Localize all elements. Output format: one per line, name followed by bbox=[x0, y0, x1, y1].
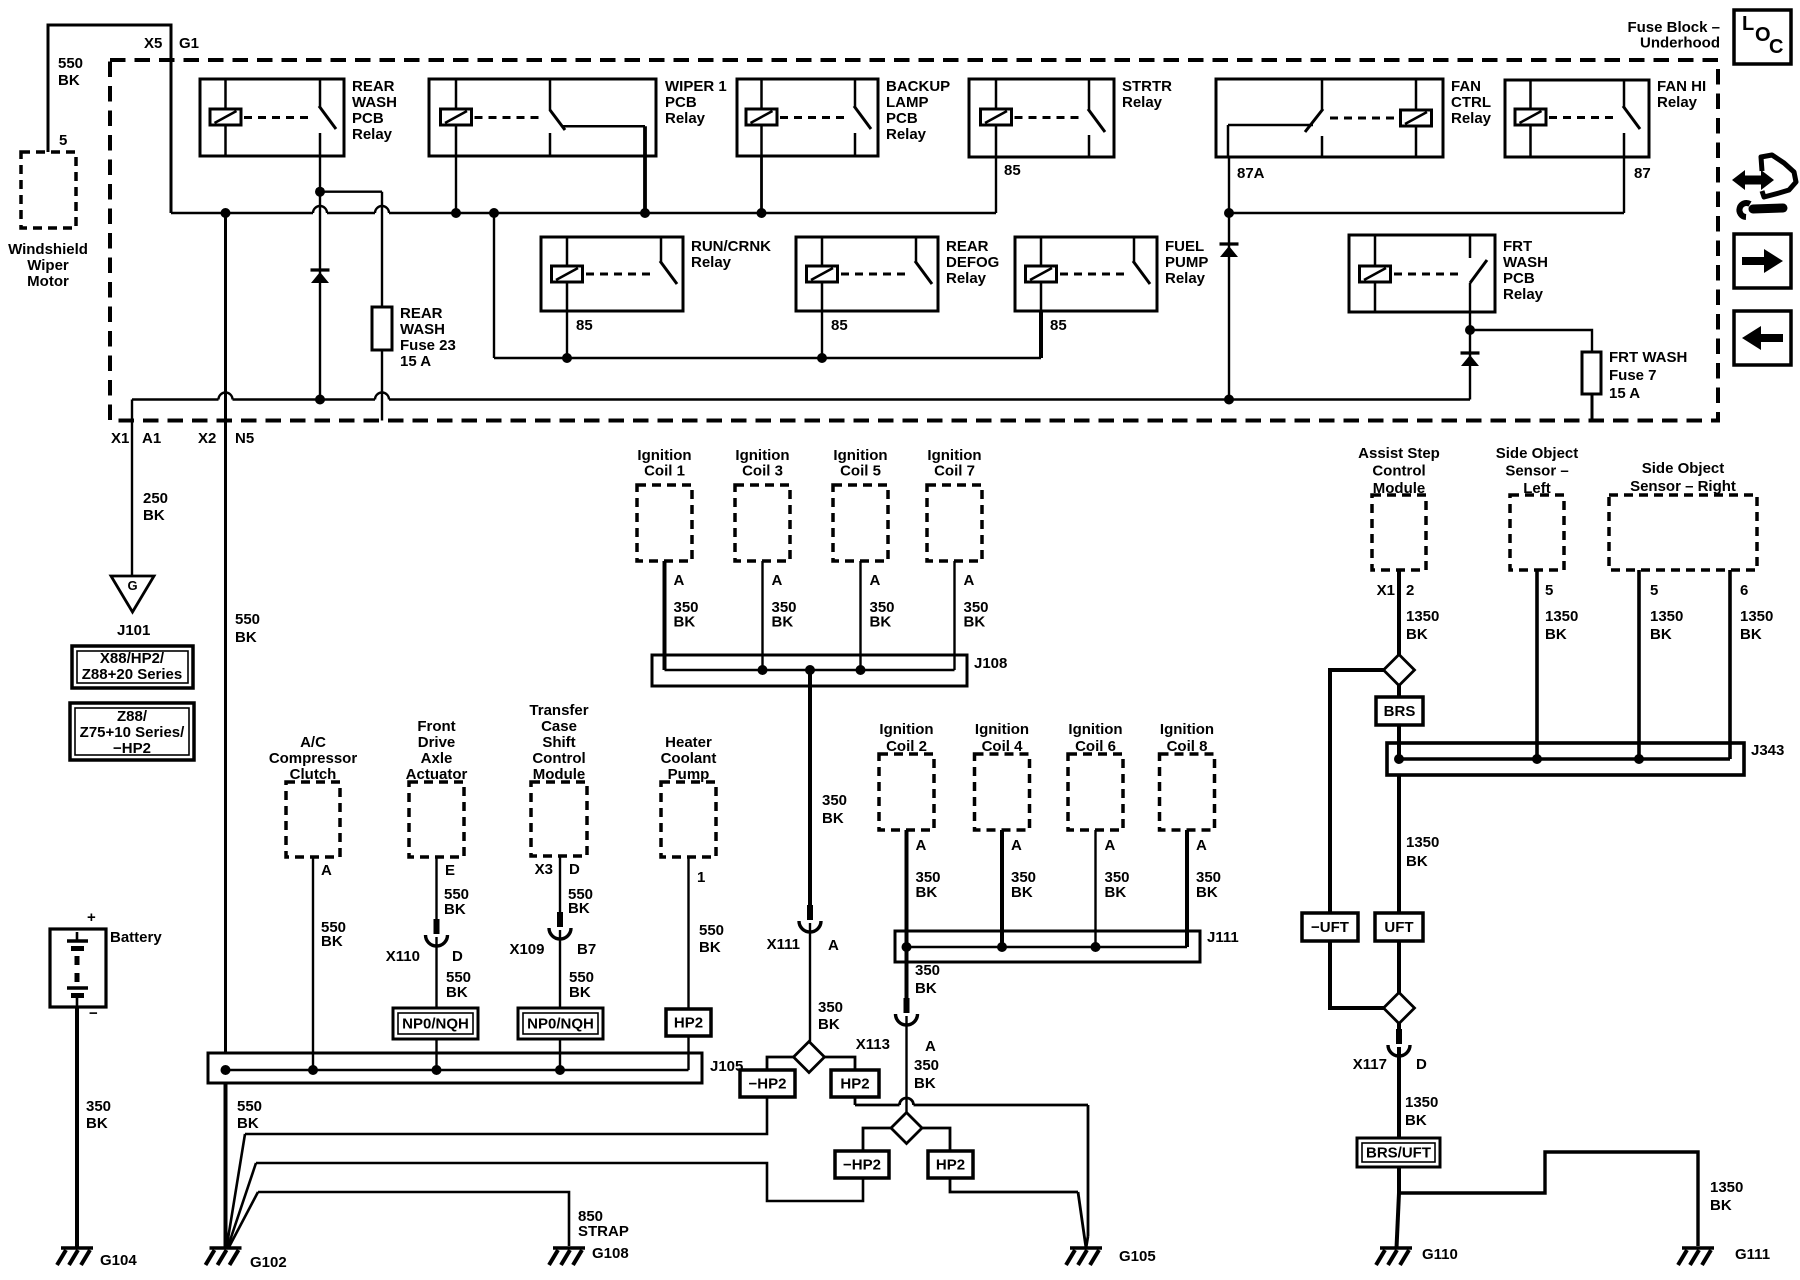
svg-text:Fuse Block –: Fuse Block – bbox=[1627, 19, 1720, 36]
svg-text:BK: BK bbox=[818, 1016, 840, 1033]
svg-text:Ignition: Ignition bbox=[1068, 721, 1122, 738]
box NP0/NQH (X109) bbox=[518, 1008, 603, 1039]
svg-text:Ignition: Ignition bbox=[879, 721, 933, 738]
svg-text:BK: BK bbox=[1196, 884, 1218, 901]
svg-text:Drive: Drive bbox=[418, 734, 456, 751]
wire -UFT to diamond2 bbox=[1330, 941, 1385, 1008]
svg-text:Pump: Pump bbox=[668, 766, 710, 783]
svg-text:A: A bbox=[925, 1038, 936, 1055]
svg-text:Coil 6: Coil 6 bbox=[1075, 738, 1116, 755]
svg-text:X3: X3 bbox=[535, 861, 553, 878]
svg-text:Relay: Relay bbox=[1122, 94, 1163, 111]
wire SOS-R pin 6 bbox=[1728, 570, 1732, 759]
svg-text:RUN/CRNK: RUN/CRNK bbox=[691, 238, 771, 255]
svg-text:Module: Module bbox=[533, 766, 586, 783]
svg-text:Windshield: Windshield bbox=[8, 241, 88, 258]
svg-text:Coil 5: Coil 5 bbox=[840, 463, 881, 480]
relay REAR WASH PCB - coil bbox=[224, 79, 227, 109]
svg-text:BK: BK bbox=[86, 1115, 108, 1132]
svg-text:Relay: Relay bbox=[691, 254, 732, 271]
svg-text:BK: BK bbox=[143, 507, 165, 524]
relay REAR DEFOG - box bbox=[796, 237, 938, 311]
ground G110 bbox=[1380, 1246, 1412, 1250]
svg-text:1350: 1350 bbox=[1405, 1094, 1438, 1111]
svg-text:350: 350 bbox=[822, 792, 847, 809]
fuse FRT WASH Fuse 7 15A bbox=[1582, 352, 1601, 394]
wire BRS to J343 bbox=[1397, 725, 1401, 760]
wire FRT WASH switch pin bbox=[1469, 283, 1471, 330]
ignition coil 4 (bank2) bbox=[975, 754, 1030, 830]
svg-text:Relay: Relay bbox=[665, 110, 706, 127]
svg-text:E: E bbox=[445, 862, 455, 879]
svg-text:85: 85 bbox=[1050, 317, 1067, 334]
splice diamond X113 bbox=[891, 1113, 922, 1144]
relay STRTR - switch bbox=[1088, 79, 1091, 110]
svg-text:J343: J343 bbox=[1751, 742, 1784, 759]
relay FRT WASH PCB - coil bbox=[1374, 235, 1377, 266]
svg-text:BK: BK bbox=[964, 614, 986, 631]
svg-text:BRS/UFT: BRS/UFT bbox=[1366, 1145, 1431, 1162]
svg-text:X109: X109 bbox=[509, 941, 544, 958]
box -UFT bbox=[1302, 913, 1358, 941]
box -HP2 (first) bbox=[740, 1070, 795, 1097]
splice diamond ASCM bbox=[1384, 655, 1415, 686]
splice pack J105 bbox=[208, 1053, 702, 1083]
svg-text:+: + bbox=[87, 909, 96, 926]
wire FAN HI 87 pin bbox=[1623, 157, 1625, 213]
svg-text:DEFOG: DEFOG bbox=[946, 254, 999, 271]
svg-text:Fuse 23: Fuse 23 bbox=[400, 337, 456, 354]
svg-text:G: G bbox=[127, 578, 137, 593]
svg-text:15 A: 15 A bbox=[400, 353, 431, 370]
svg-text:Relay: Relay bbox=[946, 270, 987, 287]
wire A/C pin bbox=[312, 857, 314, 1070]
relay STRTR - box bbox=[969, 79, 1114, 157]
svg-text:Assist Step: Assist Step bbox=[1358, 445, 1440, 462]
box arrow left bbox=[1734, 311, 1791, 365]
svg-text:A: A bbox=[828, 937, 839, 954]
connector X109 bbox=[557, 912, 563, 927]
fuse REAR WASH Fuse 23 15A bbox=[372, 307, 392, 350]
svg-text:85: 85 bbox=[1004, 162, 1021, 179]
svg-text:WASH: WASH bbox=[1503, 254, 1548, 271]
relay BACKUP LAMP PCB - box bbox=[737, 79, 878, 156]
relay REAR WASH PCB - switch bbox=[319, 79, 322, 107]
svg-text:Relay: Relay bbox=[886, 126, 927, 143]
A/C compressor clutch bbox=[286, 782, 340, 857]
svg-text:Control: Control bbox=[532, 750, 585, 767]
svg-text:5: 5 bbox=[1650, 582, 1658, 599]
relay FAN HI - coil bbox=[1529, 80, 1532, 109]
svg-text:Coil 2: Coil 2 bbox=[886, 738, 927, 755]
svg-text:−: − bbox=[89, 1005, 98, 1022]
svg-text:Coil 7: Coil 7 bbox=[934, 463, 975, 480]
windshield wiper motor bbox=[21, 152, 76, 228]
svg-text:BK: BK bbox=[1105, 884, 1127, 901]
svg-text:BK: BK bbox=[568, 900, 590, 917]
svg-text:REAR: REAR bbox=[400, 305, 443, 322]
svg-text:X113: X113 bbox=[856, 1036, 890, 1053]
wire REAR DEFOG 85 pin bbox=[821, 311, 823, 358]
transfer case shift control module bbox=[531, 782, 587, 856]
box UFT bbox=[1375, 913, 1423, 941]
svg-text:X88/HP2/: X88/HP2/ bbox=[100, 650, 165, 667]
svg-text:Shift: Shift bbox=[542, 734, 575, 751]
svg-text:Actuator: Actuator bbox=[406, 766, 468, 783]
svg-text:BK: BK bbox=[674, 614, 696, 631]
relay STRTR - coil bbox=[995, 79, 998, 109]
wire diamond to X117 bbox=[1397, 1024, 1401, 1030]
svg-text:BK: BK bbox=[916, 884, 938, 901]
ground G108 bbox=[553, 1246, 585, 1250]
icon harness arrows bbox=[1732, 155, 1796, 217]
diode frt wash bbox=[1461, 351, 1480, 354]
ground G102 bbox=[210, 1246, 242, 1250]
relay BACKUP LAMP PCB - coil bbox=[760, 79, 763, 109]
relay FUEL PUMP - switch bbox=[1133, 237, 1136, 262]
wire ignition coil 8 pin A bbox=[1185, 830, 1189, 947]
svg-text:1350: 1350 bbox=[1740, 608, 1773, 625]
svg-text:BK: BK bbox=[58, 72, 80, 89]
svg-text:X5: X5 bbox=[144, 35, 162, 52]
svg-text:Ignition: Ignition bbox=[975, 721, 1029, 738]
side object sensor left bbox=[1510, 495, 1564, 570]
svg-text:NP0/NQH: NP0/NQH bbox=[402, 1016, 469, 1033]
relay RUN/CRNK - switch bbox=[660, 237, 663, 262]
svg-text:BK: BK bbox=[1011, 884, 1033, 901]
svg-text:Ignition: Ignition bbox=[833, 447, 887, 464]
wire ignition coil 4 pin A bbox=[1000, 830, 1004, 947]
svg-text:J108: J108 bbox=[974, 655, 1007, 672]
svg-text:5: 5 bbox=[59, 132, 67, 149]
svg-text:D: D bbox=[569, 861, 580, 878]
wire WIPER1 switch pin to bus bbox=[643, 126, 647, 213]
box HP2 (heater pump) bbox=[666, 1009, 711, 1036]
connector X113 bbox=[904, 998, 910, 1013]
svg-text:A: A bbox=[916, 837, 927, 854]
svg-text:BK: BK bbox=[321, 933, 343, 950]
svg-text:FRT WASH: FRT WASH bbox=[1609, 349, 1687, 366]
svg-text:550: 550 bbox=[58, 55, 83, 72]
svg-text:BK: BK bbox=[822, 810, 844, 827]
svg-text:B7: B7 bbox=[577, 941, 596, 958]
relay RUN/CRNK - box bbox=[541, 237, 683, 311]
box -HP2 (second) bbox=[835, 1151, 889, 1178]
wire branch to G111 (1350 BK) bbox=[1399, 1152, 1698, 1246]
box arrow right bbox=[1734, 234, 1791, 288]
svg-text:−UFT: −UFT bbox=[1311, 919, 1349, 936]
box X88/HP2/Z88+20 Series bbox=[72, 646, 193, 688]
svg-text:350: 350 bbox=[915, 962, 940, 979]
svg-text:J111: J111 bbox=[1207, 929, 1239, 946]
svg-text:1350: 1350 bbox=[1406, 834, 1439, 851]
wire ignition coil 6 pin A bbox=[1094, 830, 1096, 947]
svg-text:HP2: HP2 bbox=[936, 1157, 965, 1174]
svg-text:BRS: BRS bbox=[1384, 703, 1416, 720]
svg-text:−HP2: −HP2 bbox=[843, 1157, 881, 1174]
ignition coil 7 (bank1) bbox=[927, 485, 982, 561]
svg-text:BK: BK bbox=[914, 1075, 936, 1092]
svg-text:STRTR: STRTR bbox=[1122, 78, 1172, 95]
bus 85 (y=358) bbox=[494, 357, 1041, 359]
splice diamond UFT bbox=[1384, 993, 1415, 1024]
relay FUEL PUMP - dashed link bbox=[1060, 273, 1126, 276]
svg-text:Underhood: Underhood bbox=[1640, 35, 1720, 52]
svg-text:Compressor: Compressor bbox=[269, 750, 358, 767]
svg-text:550: 550 bbox=[699, 922, 724, 939]
fuse block - underhood dashed boundary bbox=[110, 60, 1718, 421]
relay WIPER 1 PCB - dashed link bbox=[475, 116, 543, 119]
svg-text:550: 550 bbox=[235, 611, 260, 628]
svg-text:A: A bbox=[1011, 837, 1022, 854]
relay REAR WASH PCB - box bbox=[200, 79, 344, 156]
relay REAR DEFOG - dashed link bbox=[841, 273, 908, 276]
svg-text:350: 350 bbox=[914, 1057, 939, 1074]
box BRS bbox=[1376, 697, 1423, 725]
svg-text:FAN: FAN bbox=[1451, 78, 1481, 95]
relay BACKUP LAMP PCB - switch bbox=[854, 79, 857, 107]
front drive axle actuator bbox=[409, 782, 464, 857]
svg-text:Relay: Relay bbox=[352, 126, 393, 143]
ignition coil 5 (bank1) bbox=[833, 485, 888, 561]
svg-text:1350: 1350 bbox=[1650, 608, 1683, 625]
diode rear wash bbox=[311, 268, 330, 271]
wire diamond to -UFT branch bbox=[1330, 670, 1384, 913]
svg-text:A: A bbox=[772, 572, 783, 589]
svg-text:Z88+20 Series: Z88+20 Series bbox=[82, 666, 183, 683]
wire WIPER1 coil pin to bus bbox=[455, 156, 457, 213]
wire battery to G104 bbox=[75, 1007, 79, 1248]
relay BACKUP LAMP PCB - dashed link bbox=[780, 116, 847, 119]
diode fan ctrl bbox=[1220, 242, 1239, 245]
wire ignition coil 2 pin A bbox=[905, 830, 909, 947]
svg-text:REAR: REAR bbox=[946, 238, 989, 255]
ignition coil 3 (bank1) bbox=[735, 485, 790, 561]
svg-text:X2: X2 bbox=[198, 430, 216, 447]
svg-text:WASH: WASH bbox=[352, 94, 397, 111]
svg-text:BK: BK bbox=[1650, 626, 1672, 643]
wire TCSCM pin bbox=[559, 856, 561, 912]
svg-text:BK: BK bbox=[1740, 626, 1762, 643]
wire SOS-R pin 5 bbox=[1637, 570, 1641, 759]
wire 85 bus riser bbox=[493, 213, 495, 358]
wire UFT to diamond2 bbox=[1397, 941, 1401, 993]
svg-text:PCB: PCB bbox=[665, 94, 697, 111]
box HP2 (first) bbox=[831, 1070, 879, 1097]
wire J105 to G102 (550 BK) bbox=[224, 1083, 228, 1248]
svg-text:BK: BK bbox=[1406, 853, 1428, 870]
wire A1 to J101 bbox=[131, 400, 133, 577]
relay FAN CTRL - box bbox=[1216, 79, 1443, 157]
wire rear wash fuse feed tee bbox=[320, 190, 382, 192]
svg-text:2: 2 bbox=[1406, 582, 1414, 599]
svg-text:87: 87 bbox=[1634, 165, 1651, 182]
wire HCP pin bbox=[687, 857, 689, 1009]
svg-text:Relay: Relay bbox=[1165, 270, 1206, 287]
svg-text:X110: X110 bbox=[386, 948, 420, 965]
svg-text:A1: A1 bbox=[142, 430, 161, 447]
box HP2 (second) bbox=[928, 1151, 973, 1178]
svg-text:Left: Left bbox=[1523, 480, 1551, 497]
box BRS/UFT bbox=[1357, 1138, 1440, 1167]
relay FRT WASH PCB - switch bbox=[1469, 235, 1472, 258]
svg-text:G111: G111 bbox=[1735, 1246, 1770, 1263]
svg-text:BK: BK bbox=[870, 614, 892, 631]
connector X111 bbox=[807, 905, 813, 920]
wire 87A down with diode to bus bbox=[1228, 213, 1230, 400]
relay STRTR - dashed link bbox=[1015, 116, 1082, 119]
svg-text:Coil 8: Coil 8 bbox=[1167, 738, 1208, 755]
relay REAR WASH PCB - dashed link bbox=[244, 116, 311, 119]
svg-text:Clutch: Clutch bbox=[290, 766, 337, 783]
relay WIPER 1 PCB - switch bbox=[549, 79, 552, 111]
svg-text:G105: G105 bbox=[1119, 1248, 1156, 1265]
svg-text:PCB: PCB bbox=[886, 110, 918, 127]
svg-text:LAMP: LAMP bbox=[886, 94, 929, 111]
svg-text:Motor: Motor bbox=[27, 273, 69, 290]
svg-text:Side Object: Side Object bbox=[1496, 445, 1579, 462]
svg-text:FUEL: FUEL bbox=[1165, 238, 1204, 255]
wire fuse block A-pin to J105 (550 BK) bbox=[224, 213, 227, 1053]
svg-text:G108: G108 bbox=[592, 1245, 629, 1262]
svg-text:Front: Front bbox=[417, 718, 455, 735]
relay FAN CTRL - dashed link bbox=[1330, 117, 1394, 120]
splice diamond X111 bbox=[794, 1042, 825, 1073]
ignition coil 8 (bank2) bbox=[1160, 754, 1215, 830]
svg-text:BK: BK bbox=[235, 629, 257, 646]
box Z88/Z75+10 Series/-HP2 bbox=[70, 703, 194, 760]
svg-text:BK: BK bbox=[1710, 1197, 1732, 1214]
svg-text:Side Object: Side Object bbox=[1642, 460, 1725, 477]
splice pack J343 bbox=[1387, 743, 1744, 775]
wire SOS-L pin 5 bbox=[1535, 570, 1539, 759]
ground G104 bbox=[61, 1246, 93, 1250]
svg-text:HP2: HP2 bbox=[674, 1015, 703, 1032]
svg-text:Coil 3: Coil 3 bbox=[742, 463, 783, 480]
relay FAN CTRL - coil bbox=[1415, 79, 1418, 110]
svg-text:G1: G1 bbox=[179, 35, 199, 52]
relay FUEL PUMP - box bbox=[1015, 237, 1157, 311]
svg-text:BK: BK bbox=[446, 984, 468, 1001]
relay FAN HI - dashed link bbox=[1549, 116, 1616, 119]
svg-text:A: A bbox=[870, 572, 881, 589]
svg-text:Coil 4: Coil 4 bbox=[982, 738, 1023, 755]
relay FAN CTRL - switch (left) bbox=[1321, 79, 1324, 110]
svg-text:1350: 1350 bbox=[1406, 608, 1439, 625]
wire frt wash diode branch bbox=[1469, 330, 1471, 400]
ground G105 bbox=[1070, 1246, 1102, 1250]
svg-text:Case: Case bbox=[541, 718, 577, 735]
wire 850 STRAP to G108 bbox=[258, 1192, 569, 1246]
svg-text:Ignition: Ignition bbox=[637, 447, 691, 464]
svg-text:BK: BK bbox=[772, 614, 794, 631]
svg-text:BK: BK bbox=[444, 901, 466, 918]
svg-text:A: A bbox=[321, 862, 332, 879]
wire diamond to HP2 bbox=[825, 1057, 856, 1070]
svg-text:CTRL: CTRL bbox=[1451, 94, 1491, 111]
svg-text:A: A bbox=[1196, 837, 1207, 854]
splice J101 triangle G bbox=[111, 576, 154, 612]
svg-text:UFT: UFT bbox=[1384, 919, 1413, 936]
svg-text:J101: J101 bbox=[117, 622, 150, 639]
relay REAR DEFOG - switch bbox=[915, 237, 918, 262]
wire diamond2 to -HP2 bbox=[863, 1128, 891, 1151]
LOC box bbox=[1734, 10, 1791, 64]
svg-text:85: 85 bbox=[576, 317, 593, 334]
svg-text:PCB: PCB bbox=[1503, 270, 1535, 287]
svg-text:WIPER 1: WIPER 1 bbox=[665, 78, 727, 95]
svg-text:REAR: REAR bbox=[352, 78, 395, 95]
wire ignition coil 5 pin A bbox=[859, 561, 861, 670]
svg-text:6: 6 bbox=[1740, 582, 1748, 599]
svg-text:X1: X1 bbox=[111, 430, 129, 447]
side object sensor right bbox=[1609, 495, 1757, 570]
svg-text:NP0/NQH: NP0/NQH bbox=[527, 1016, 594, 1033]
wire J111 output (350 BK) bbox=[905, 947, 909, 998]
assist step control module bbox=[1372, 495, 1426, 570]
svg-text:87A: 87A bbox=[1237, 165, 1265, 182]
svg-text:N5: N5 bbox=[235, 430, 254, 447]
svg-text:1: 1 bbox=[697, 869, 705, 886]
battery bbox=[50, 929, 106, 1007]
svg-text:A: A bbox=[674, 572, 685, 589]
svg-text:A/C: A/C bbox=[300, 734, 326, 751]
svg-text:Heater: Heater bbox=[665, 734, 712, 751]
svg-text:Sensor –: Sensor – bbox=[1505, 463, 1568, 480]
svg-text:Ignition: Ignition bbox=[927, 447, 981, 464]
connector X110 bbox=[434, 919, 440, 934]
wire BACKUP coil pin to bus bbox=[760, 156, 763, 213]
svg-text:−HP2: −HP2 bbox=[749, 1076, 787, 1093]
relay FAN HI - box bbox=[1505, 80, 1649, 157]
svg-text:85: 85 bbox=[831, 317, 848, 334]
svg-text:A: A bbox=[964, 572, 975, 589]
svg-text:250: 250 bbox=[143, 490, 168, 507]
relay FUEL PUMP - coil bbox=[1040, 237, 1043, 266]
bus G1 feed (y=213) bbox=[171, 212, 313, 214]
relay FAN HI - switch bbox=[1623, 80, 1626, 107]
svg-text:Axle: Axle bbox=[421, 750, 453, 767]
svg-text:WASH: WASH bbox=[400, 321, 445, 338]
svg-text:HP2: HP2 bbox=[840, 1076, 869, 1093]
relay RUN/CRNK - dashed link bbox=[586, 273, 653, 276]
relay WIPER 1 PCB - box bbox=[429, 79, 656, 156]
wire RUN/CRNK 85 pin bbox=[566, 311, 568, 358]
svg-text:BACKUP: BACKUP bbox=[886, 78, 950, 95]
svg-text:Ignition: Ignition bbox=[735, 447, 789, 464]
wire diamond to -HP2 bbox=[767, 1057, 794, 1070]
wire 87A to 87 link bbox=[1229, 212, 1624, 214]
wire X117 to BRS/UFT (1350 BK) bbox=[1397, 1047, 1401, 1138]
ignition coil 6 (bank2) bbox=[1068, 754, 1123, 830]
svg-text:G110: G110 bbox=[1422, 1246, 1458, 1263]
wire REAR WASH switch pin down with diode bbox=[319, 156, 321, 400]
svg-text:X117: X117 bbox=[1353, 1056, 1387, 1073]
svg-text:Relay: Relay bbox=[1503, 286, 1544, 303]
svg-text:PCB: PCB bbox=[352, 110, 384, 127]
svg-text:Wiper: Wiper bbox=[27, 257, 69, 274]
svg-text:350: 350 bbox=[86, 1098, 111, 1115]
svg-text:D: D bbox=[1416, 1056, 1427, 1073]
svg-text:15 A: 15 A bbox=[1609, 385, 1640, 402]
svg-text:G104: G104 bbox=[100, 1252, 137, 1269]
svg-text:X111: X111 bbox=[767, 936, 800, 953]
svg-text:A: A bbox=[1105, 837, 1116, 854]
wire STRTR coil pin to bus (85) bbox=[995, 157, 997, 213]
wire ignition coil 1 pin A bbox=[663, 561, 667, 670]
wire -HP2 to G102 branch bbox=[245, 1097, 767, 1134]
svg-text:C: C bbox=[1769, 36, 1783, 58]
